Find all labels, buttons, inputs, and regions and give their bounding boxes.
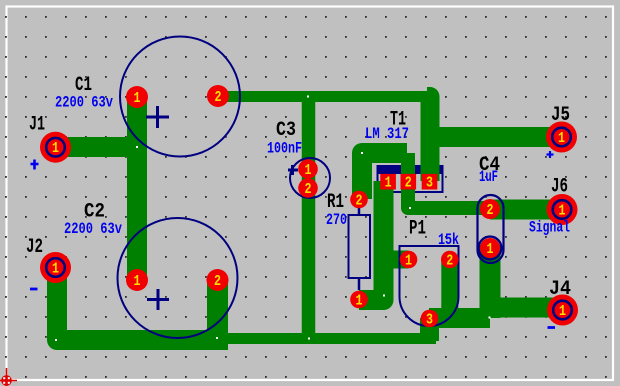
connector J4 pad 1	[547, 295, 578, 326]
polarity - of J4	[548, 326, 556, 329]
connector J1 pad 1	[40, 132, 71, 163]
wire adj to P1 pad1	[384, 251, 409, 269]
capacitor C4 outline	[478, 195, 504, 263]
svg-text:P1: P1	[409, 218, 426, 241]
svg-text:1: 1	[405, 252, 412, 269]
connector J2 pad 1	[40, 252, 71, 283]
svg-text:2: 2	[215, 89, 222, 106]
potentiometer P1 pad 1	[400, 251, 418, 270]
svg-text:270: 270	[326, 211, 347, 229]
wire T1 pad1 down to R1 pad1	[359, 181, 384, 300]
svg-text:15k: 15k	[438, 231, 459, 249]
svg-text:1: 1	[385, 175, 392, 192]
capacitor C4 pad 2	[480, 199, 500, 219]
polarity - of J2	[30, 288, 38, 291]
svg-text:2: 2	[405, 175, 412, 192]
resistor R1 outline	[349, 215, 371, 278]
svg-text:1uF: 1uF	[479, 168, 498, 186]
svg-text:1: 1	[487, 241, 494, 258]
svg-text:J5: J5	[551, 104, 570, 127]
wire to J4	[490, 298, 563, 318]
wire P1 pad2 down	[441, 260, 458, 319]
wire thin bottom bus	[217, 333, 436, 344]
svg-text:2200 63v: 2200 63v	[64, 220, 122, 238]
capacitor C2 pad 1	[126, 269, 148, 291]
svg-text:2: 2	[214, 273, 221, 290]
capacitor C4 pad 1	[479, 237, 502, 260]
wire P1 pad3 stub down to bottom bus	[420, 318, 439, 341]
svg-text:1: 1	[559, 202, 566, 219]
polarity + of J5	[547, 151, 554, 158]
wire J2 down and along bottom	[57, 268, 228, 340]
transistor T1 pad 2	[401, 174, 417, 192]
capacitor C1 pad 2	[207, 85, 229, 107]
svg-text:2: 2	[446, 252, 453, 269]
wire C4 pad1 down	[480, 245, 501, 318]
svg-text:J2: J2	[26, 236, 43, 259]
wire P1 pad3 to C4 vertical	[429, 308, 490, 328]
capacitor C3 pad 1	[298, 159, 318, 179]
svg-text:LM 317: LM 317	[365, 125, 409, 143]
resistor R1 leads	[358, 207, 361, 290]
wire U shape R1 pad2 to T1 pad2	[362, 153, 407, 199]
svg-text:1: 1	[52, 140, 59, 157]
svg-text:J6: J6	[551, 176, 568, 199]
resistor R1 pad 1	[350, 291, 368, 310]
polarity + of J1	[31, 160, 39, 170]
potentiometer P1 pad 2	[441, 251, 459, 270]
svg-text:1: 1	[305, 162, 312, 179]
origin marker	[0, 368, 17, 386]
svg-text:1: 1	[558, 130, 565, 147]
wire thin top from C1 pad2	[218, 91, 429, 102]
wire right vertical to T1 pad3	[427, 97, 430, 182]
svg-text:2200 63v: 2200 63v	[55, 94, 113, 112]
svg-text:2: 2	[356, 192, 363, 209]
transistor T1 outline (connector body)	[377, 166, 443, 193]
svg-text:1: 1	[52, 260, 59, 277]
connector J6 pad 1	[547, 194, 578, 225]
capacitor C2 outline	[118, 218, 238, 338]
svg-text:100nF: 100nF	[267, 140, 302, 158]
capacitor C2 pad 2	[207, 269, 229, 291]
capacitor C1 polarity cross	[146, 106, 169, 128]
svg-text:1: 1	[134, 273, 141, 290]
svg-text:J1: J1	[29, 114, 45, 137]
transistor T1 pad 1	[380, 174, 396, 192]
wire J1 to center vertical	[56, 137, 137, 157]
connector J5 pad 1	[546, 122, 577, 153]
svg-text:2: 2	[487, 202, 494, 219]
resistor R1 pad 2	[350, 191, 368, 210]
capacitor C1 pad 1	[126, 86, 148, 108]
svg-text:Signal: Signal	[529, 219, 570, 237]
svg-text:2: 2	[305, 181, 312, 198]
svg-text:1: 1	[356, 292, 363, 309]
svg-text:1: 1	[134, 90, 141, 107]
capacitor C2 polarity cross	[147, 289, 169, 310]
wire to J5	[430, 127, 562, 147]
wire C1 pad1 to C2 pad1 vertical	[127, 97, 147, 280]
svg-text:3: 3	[426, 175, 433, 192]
svg-text:1: 1	[559, 303, 566, 320]
transistor T1 pad 3	[422, 174, 438, 192]
wire middle thin vertical through C3	[302, 97, 316, 339]
potentiometer P1 pad 3	[421, 310, 439, 329]
capacitor C3 outline	[290, 158, 330, 198]
capacitor C3 pad 2	[298, 178, 318, 198]
wire C2 pad2 down	[207, 280, 228, 340]
potentiometer P1 outline	[400, 246, 459, 326]
capacitor C1 outline	[120, 37, 240, 157]
svg-text:J4: J4	[549, 278, 571, 301]
wire T1 pad2 down to C4 pad2	[408, 153, 490, 208]
capacitor C3 polarity cross	[288, 165, 298, 175]
svg-text:3: 3	[426, 311, 433, 328]
wire C4 pad2 to J6	[490, 200, 562, 220]
